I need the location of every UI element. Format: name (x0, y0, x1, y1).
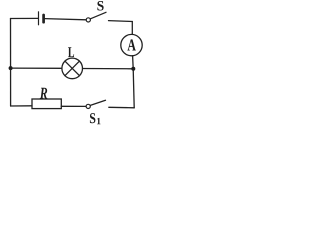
label R (40, 88, 47, 99)
wire top-left to battery (11, 17, 39, 19)
label A (127, 39, 135, 50)
resistor R (32, 99, 61, 109)
label L (68, 47, 74, 57)
battery short plate (42, 15, 45, 22)
switch S pivot (86, 18, 90, 22)
ammeter A1 (121, 34, 142, 55)
wire switch S to top-right corner (109, 20, 133, 23)
wire bottom left (11, 105, 32, 107)
wire ammeter to junction (132, 56, 135, 69)
lamp L (62, 58, 83, 79)
wire switch S1 to bottom-right corner (109, 106, 134, 109)
switch S1 blade (90, 100, 105, 105)
wire right down to ammeter (131, 22, 133, 35)
wire resistor to switch S1 (61, 105, 86, 107)
label S (97, 1, 103, 11)
wire middle left (11, 67, 62, 69)
node junction right (131, 67, 135, 71)
switch S blade (90, 12, 106, 18)
battery long plate (38, 12, 40, 25)
wire right vertical bottom (133, 69, 134, 108)
wire left vertical (10, 19, 12, 107)
wire battery to switch S (45, 19, 86, 20)
node junction left (9, 66, 13, 70)
switch S1 pivot (86, 104, 90, 108)
wire middle right (83, 68, 134, 70)
label S1 (90, 113, 95, 123)
